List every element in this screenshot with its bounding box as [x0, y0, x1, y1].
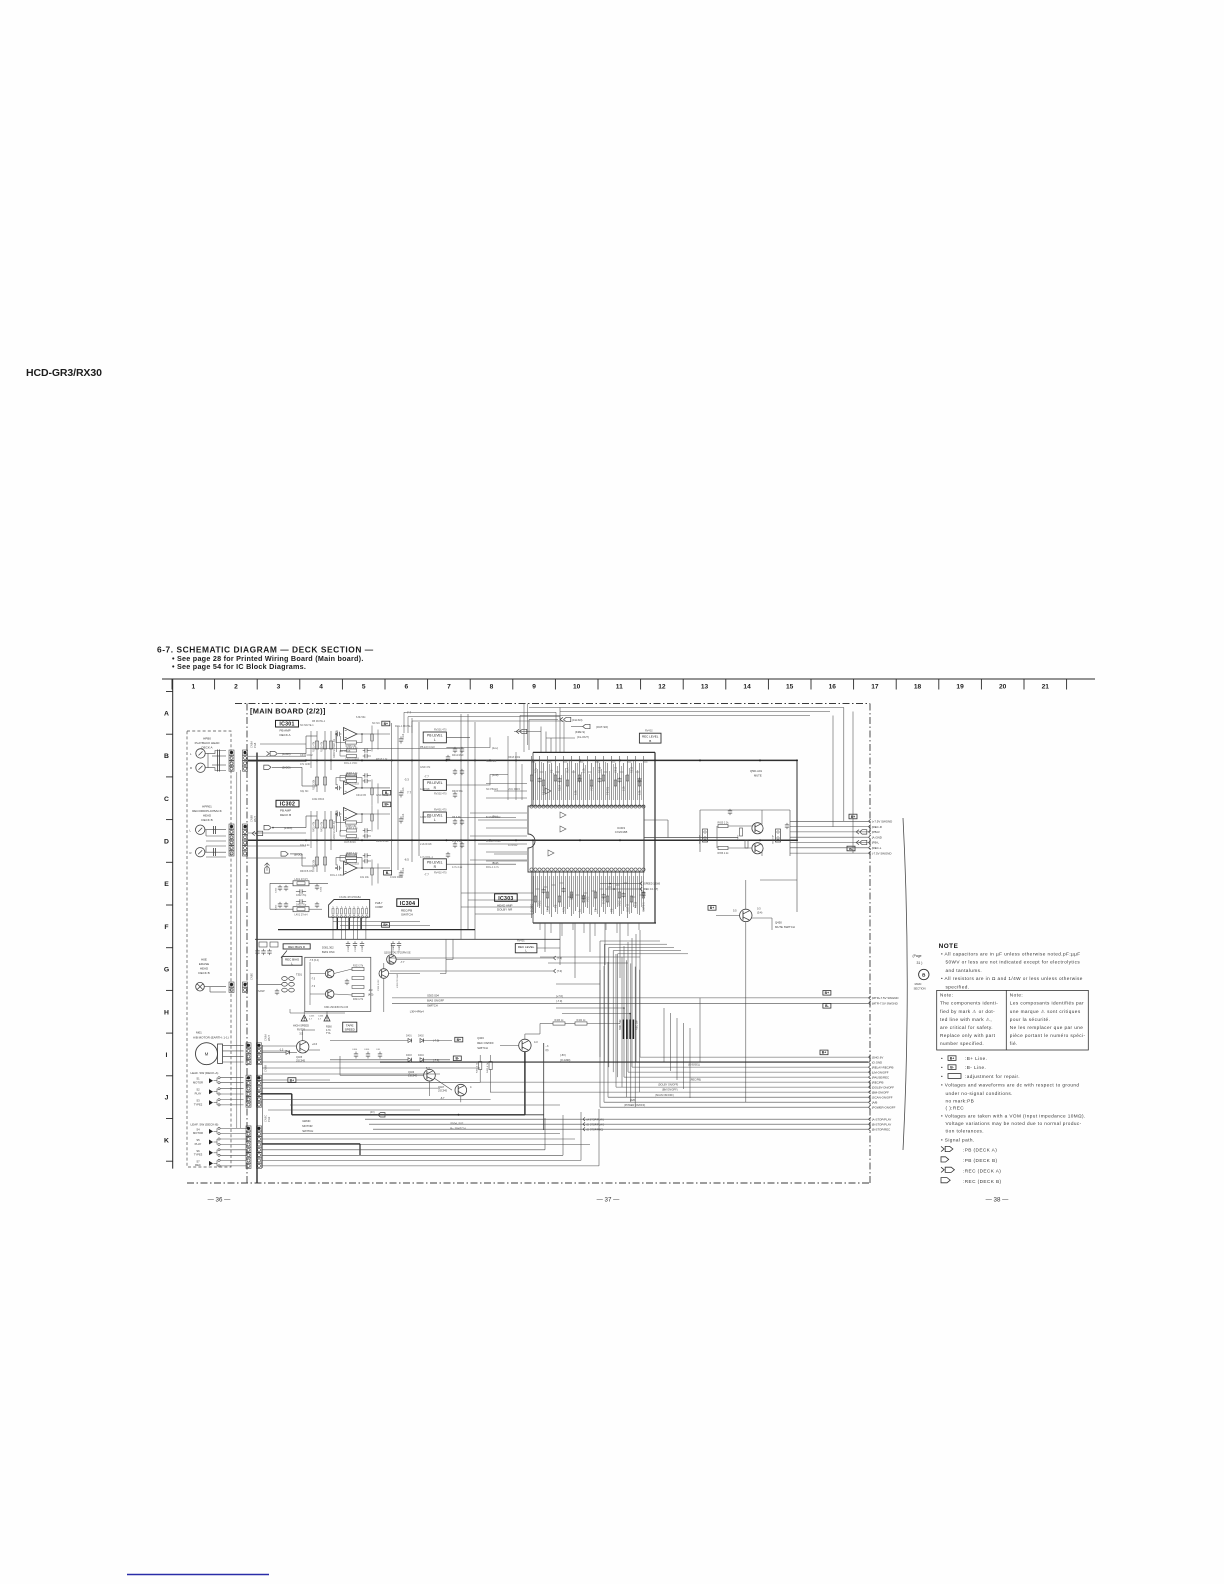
svg-text:2.2k R318: 2.2k R318: [420, 843, 432, 846]
IC303 lower collector bus: [533, 922, 656, 924]
B- marker: [383, 790, 391, 795]
bus drops to bias switch: [445, 939, 447, 973]
op-amp: [344, 862, 358, 875]
IC303 upper bus frame: [533, 751, 655, 753]
svg-text:— 37 —: — 37 —: [597, 1197, 621, 1204]
ladder wires upper right of IC301: [404, 711, 556, 713]
svg-text:C313: C313: [402, 733, 405, 739]
svg-text:0.022: 0.022: [570, 893, 574, 900]
svg-text:7: 7: [447, 684, 451, 691]
svg-text:FB 6.8k: FB 6.8k: [452, 816, 461, 819]
svg-text:PLAY: PLAY: [195, 1092, 202, 1096]
svg-text:and tantalums.: and tantalums.: [946, 968, 983, 973]
svg-text:C345: C345: [309, 1016, 315, 1018]
svg-text:RV402 470: RV402 470: [434, 872, 447, 875]
riser bundle verticals: [599, 941, 601, 1057]
svg-text:S3: S3: [196, 1099, 200, 1103]
svg-text:12: 12: [658, 684, 666, 691]
legend rec deck a: [941, 1167, 944, 1172]
svg-text:MUTE-1: MUTE-1: [642, 902, 646, 912]
svg-text:15: 15: [786, 684, 794, 691]
bias divider verticals: [371, 860, 373, 886]
pb level pot R deck A: [423, 780, 446, 791]
svg-text:4.7u DOL-1: 4.7u DOL-1: [420, 856, 434, 859]
svg-text:(OUT-SO): (OUT-SO): [596, 725, 608, 729]
svg-text:GND 47k: GND 47k: [420, 766, 431, 769]
k-row long wires: [262, 1149, 545, 1151]
svg-text:D402: D402: [418, 1035, 424, 1038]
svg-text:50WV or less are not indicated: 50WV or less are not indicated except fo…: [946, 960, 1081, 965]
bias divider verticals: [371, 779, 373, 805]
IC304 package: [329, 900, 370, 918]
svg-text:3: 3: [277, 684, 281, 691]
svg-text:C406: C406: [364, 1049, 370, 1051]
svg-text:PG8: PG8: [253, 742, 257, 748]
svg-text:(REC-L: (REC-L: [872, 846, 882, 850]
B+ markers on control lines: [823, 991, 831, 996]
bus junction dots: [305, 759, 307, 761]
svg-text:4.7u 2.2k: 4.7u 2.2k: [452, 866, 463, 869]
row letters A-K with ticks: [164, 692, 173, 1162]
legend rec deck b: [941, 1178, 950, 1183]
svg-text:are critical for safety.: are critical for safety.: [940, 1025, 993, 1030]
svg-text:6.8k 56k: 6.8k 56k: [356, 716, 366, 719]
svg-text:47k 2.2k: 47k 2.2k: [452, 840, 462, 843]
connector CN8A deck A head, board side pair: [229, 750, 234, 755]
svg-text:BIAS ON/OFF: BIAS ON/OFF: [427, 999, 444, 1003]
row D aux wires: [248, 832, 306, 834]
svg-text:RV401 470: RV401 470: [434, 809, 447, 812]
svg-text:C612: C612: [614, 766, 618, 773]
svg-text:R464 1k: R464 1k: [577, 1019, 587, 1022]
svg-text:C323: C323: [362, 946, 364, 952]
arrows above IC303: [560, 717, 563, 721]
svg-text:(LM-ON/OFF: (LM-ON/OFF: [872, 1070, 889, 1074]
svg-text:FB: FB: [554, 904, 558, 908]
svg-text:31 ): 31 ): [917, 961, 923, 965]
B- marker mute: [847, 846, 855, 851]
svg-text:(A.GND: (A.GND: [872, 835, 882, 839]
svg-text:C322: C322: [355, 946, 357, 952]
svg-text:6: 6: [404, 684, 408, 691]
rec/pb switch bus upper: [278, 929, 475, 931]
svg-text:(A STOP/PLAY): (A STOP/PLAY): [587, 1118, 605, 1121]
B+ marker IC302: [383, 802, 391, 807]
svg-text:FB: FB: [594, 908, 598, 912]
connector CN753: [776, 829, 781, 842]
svg-text:(O.GND: (O.GND: [872, 1060, 882, 1064]
svg-text:DOL-1 4.7u: DOL-1 4.7u: [486, 866, 500, 869]
svg-text:PB-EQ: PB-EQ: [606, 787, 610, 795]
svg-text:IC303: IC303: [498, 896, 513, 902]
supply verticals right: [843, 708, 845, 822]
svg-text::REC (DECK B): :REC (DECK B): [963, 1179, 1002, 1184]
svg-text:NC NC: NC NC: [372, 722, 380, 725]
svg-text:(B-STOP/PLAY: (B-STOP/PLAY: [872, 1122, 892, 1126]
svg-text::REC (DECK A): :REC (DECK A): [963, 1168, 1001, 1173]
svg-text:HPB0: HPB0: [203, 737, 211, 741]
svg-text::PB (DECK B): :PB (DECK B): [963, 1158, 997, 1163]
svg-text:R318 R322: R318 R322: [376, 840, 389, 843]
svg-text::PB (DECK A): :PB (DECK A): [963, 1148, 997, 1153]
svg-text:(-7.0): (-7.0): [556, 999, 562, 1003]
bias switch wiring: [390, 944, 392, 955]
svg-text:C307 0.0033: C307 0.0033: [345, 758, 359, 761]
connector leaf sw deck A pair: [246, 1075, 251, 1080]
bias osc transistor Q302: [325, 990, 334, 999]
svg-text:LEAF. SW (DECK-B): LEAF. SW (DECK-B): [191, 1123, 219, 1127]
legend pb deck a: [941, 1146, 944, 1151]
svg-text:CN9B: CN9B: [264, 1065, 268, 1072]
svg-text:VCC: VCC: [590, 785, 594, 791]
svg-text:B-: B-: [825, 1004, 829, 1008]
svg-text:16: 16: [829, 684, 837, 691]
motor wires: [223, 1044, 244, 1046]
border feed verticals: [523, 704, 525, 753]
svg-text:DOLBY NR: DOLBY NR: [497, 908, 513, 912]
pb-l output arrow: [856, 840, 859, 844]
svg-text:B.OSC C612: B.OSC C612: [486, 816, 501, 819]
diode pair D401 D402: [408, 1039, 412, 1043]
svg-text:HPR01: HPR01: [202, 805, 212, 809]
svg-text:S504, S02: S504, S02: [450, 1121, 464, 1125]
svg-text::adjustment for repair.: :adjustment for repair.: [965, 1074, 1020, 1079]
svg-text:OUT-B NC: OUT-B NC: [344, 841, 356, 844]
svg-text:(O-GND): (O-GND): [560, 1058, 571, 1062]
svg-text:(MTR-7.5V SWGND: (MTR-7.5V SWGND: [872, 1002, 898, 1006]
s501 s502 bold switch ticks: [623, 1020, 625, 1040]
svg-text:B+: B+: [710, 906, 714, 910]
B+ marker diodes: [455, 1037, 463, 1042]
svg-text:PB-EQ 0.022: PB-EQ 0.022: [420, 746, 435, 749]
svg-text:0.3: 0.3: [757, 907, 761, 911]
rec/play head L deck B: [196, 825, 205, 834]
svg-text:tion tolerances.: tion tolerances.: [946, 1128, 985, 1133]
svg-text:FB: FB: [610, 908, 614, 912]
svg-text:L301 27mH: L301 27mH: [295, 878, 308, 881]
svg-text:VCC: VCC: [538, 900, 542, 906]
svg-text:HEAD: HEAD: [200, 967, 209, 971]
svg-text:C405 56k: C405 56k: [420, 816, 431, 819]
head B wiring: [205, 829, 226, 831]
vertical drops into IC top: [507, 736, 509, 800]
svg-text:• Signal path.: • Signal path.: [941, 1137, 975, 1142]
transistor Q406: [424, 1069, 436, 1081]
connector CN752: [703, 829, 708, 842]
svg-text:D403: D403: [406, 1054, 412, 1057]
svg-text:5.5: 5.5: [733, 909, 737, 913]
svg-text:(Page: (Page: [913, 954, 922, 958]
feedback resistor: [346, 821, 357, 824]
svg-text:6.8k: 6.8k: [638, 789, 642, 795]
input coupling cap: [336, 867, 338, 869]
svg-text:SPEED: SPEED: [345, 1028, 356, 1032]
svg-text:R307 2.2k: R307 2.2k: [347, 827, 359, 830]
svg-text:B+: B+: [383, 923, 387, 927]
svg-text:(L-DO): (L-DO): [284, 826, 292, 830]
tape transport dashed enclosure: [187, 731, 231, 1167]
svg-text:(REC/PB: (REC/PB: [872, 1080, 884, 1084]
svg-text:B+: B+: [290, 1078, 294, 1082]
left bus risers from connectors: [262, 1082, 480, 1084]
svg-text:PLAYBACK HEAD: PLAYBACK HEAD: [195, 741, 221, 745]
svg-text:2SC945: 2SC945: [438, 1090, 448, 1093]
connector leaf sw deck B pair: [246, 1126, 251, 1131]
svg-text:S4: S4: [196, 1127, 200, 1131]
svg-text:(MTR+7.5V SWGND: (MTR+7.5V SWGND: [872, 996, 899, 1000]
svg-text:VCC: VCC: [618, 900, 622, 906]
svg-text:REC SW: REC SW: [636, 1020, 639, 1030]
IC303 bottom pin row: [530, 868, 645, 876]
bus drop to mute switch: [796, 840, 798, 912]
svg-text:L: L: [434, 738, 436, 742]
svg-text:B-: B-: [456, 1057, 460, 1061]
svg-text:BIAS OSC: BIAS OSC: [322, 950, 335, 954]
mute area frame wires: [644, 837, 738, 839]
filter caps: [355, 1052, 357, 1054]
svg-text:T301: T301: [296, 973, 302, 977]
input coupling cap: [336, 733, 338, 735]
svg-text:S6: S6: [196, 1149, 200, 1153]
svg-text:• Voltages are taken with a VO: • Voltages are taken with a VOM (Input i…: [941, 1113, 1086, 1118]
svg-text:(+7.5V SWGND: (+7.5V SWGND: [872, 820, 892, 824]
control bus left bends: [639, 930, 641, 1057]
svg-text:PB LEVEL: PB LEVEL: [427, 781, 443, 785]
svg-text:(BM-ON/OFF: (BM-ON/OFF: [872, 1090, 889, 1094]
svg-text:A/B MOTOR (EARTH: 1-1): A/B MOTOR (EARTH: 1-1): [193, 1036, 229, 1040]
svg-text:R463 1k: R463 1k: [555, 1019, 565, 1022]
svg-text:CN9C: CN9C: [264, 1115, 268, 1122]
svg-text:(KM2-S): (KM2-S): [575, 730, 585, 734]
svg-text:ERASE: ERASE: [199, 962, 209, 966]
svg-text:10k 2.2k: 10k 2.2k: [300, 844, 310, 847]
svg-text:(A-R): (A-R): [492, 773, 499, 777]
IC303 upper comb half-pitch lines: [533, 760, 535, 800]
svg-text:[MAIN BOARD (2/2)]: [MAIN BOARD (2/2)]: [250, 707, 326, 716]
svg-text:20: 20: [999, 684, 1007, 691]
long verticals to lower board: [460, 714, 462, 939]
svg-text:DECK A: DECK A: [280, 733, 291, 737]
svg-text:R318 100k: R318 100k: [508, 756, 521, 759]
bias osc resistors: [352, 967, 364, 970]
svg-text:(7.0): (7.0): [557, 956, 562, 960]
svg-text:(-5V): (-5V): [560, 1053, 566, 1057]
svg-text:CN9A: CN9A: [264, 1034, 268, 1041]
svg-text:-3.3: -3.3: [368, 988, 373, 992]
svg-text:+0.6: +0.6: [312, 1042, 318, 1046]
svg-text:CN8E: CN8E: [250, 973, 254, 980]
IC302 bank lower: [316, 850, 318, 872]
svg-text:VCC: VCC: [586, 896, 590, 902]
svg-text:(DOLBY-ON/OFF: (DOLBY-ON/OFF: [872, 1085, 895, 1089]
svg-text:I: I: [166, 1052, 168, 1059]
svg-text:(POWER-ON/OFF: (POWER-ON/OFF: [872, 1105, 896, 1109]
feedback resistor: [346, 856, 357, 859]
svg-text:Les composants identifiés par: Les composants identifiés par: [1010, 1001, 1084, 1006]
second riser bundle: [663, 1008, 665, 1062]
svg-text:NC MUTE-1: NC MUTE-1: [300, 724, 314, 727]
connector erase head pair: [229, 982, 234, 987]
IC label box IC301: [276, 720, 299, 727]
svg-text:10k 10k: 10k 10k: [360, 876, 370, 879]
rec bias L box: [282, 956, 302, 965]
svg-text:(B STOP/REC): (B STOP/REC): [587, 1128, 604, 1131]
q406/q407 wiring: [340, 1074, 424, 1076]
svg-text:RV303: RV303: [297, 1027, 305, 1031]
svg-text:SAMP: SAMP: [258, 990, 265, 993]
svg-text:13: 13: [701, 684, 709, 691]
svg-text:R462 4.7k: R462 4.7k: [477, 1062, 479, 1073]
svg-text:-7.5: -7.5: [311, 978, 316, 981]
coupling capacitor: [400, 816, 402, 819]
svg-text:(PB-L: (PB-L: [872, 841, 880, 845]
diode D405: [286, 1050, 290, 1054]
svg-text:DOL-1 VCC: DOL-1 VCC: [344, 762, 358, 765]
bold motor switch bus: [261, 1093, 292, 1095]
svg-text:D404: D404: [418, 1054, 424, 1057]
IC304 upper link wires: [333, 921, 420, 923]
svg-text:CX20188: CX20188: [615, 830, 628, 834]
rec bias R box: [283, 944, 310, 949]
IC303 left entry wires extended: [486, 783, 527, 785]
svg-text:2.2k: 2.2k: [582, 767, 586, 773]
svg-text:DECK B: DECK B: [280, 813, 291, 817]
svg-text:WHT: WHT: [253, 816, 257, 822]
svg-text:-7.9: -7.9: [311, 985, 316, 988]
E-F link horizontals: [461, 892, 533, 894]
inductor network L301: [293, 881, 309, 886]
svg-text:Q501 A01: Q501 A01: [750, 769, 762, 773]
svg-text::B+ Line.: :B+ Line.: [965, 1056, 987, 1061]
svg-text:• All resistors are in Ω and 1: • All resistors are in Ω and 1/4W or les…: [941, 976, 1083, 981]
playback head R deck A: [196, 763, 205, 772]
svg-text:SWITCH: SWITCH: [401, 913, 413, 917]
svg-text:MUTE SWITCH: MUTE SWITCH: [775, 925, 795, 929]
svg-text:PLAY: PLAY: [195, 1142, 202, 1146]
B+ marker: [382, 721, 390, 726]
svg-text:ted line with mark ⚠,: ted line with mark ⚠,: [940, 1017, 992, 1022]
svg-text:18: 18: [914, 684, 922, 691]
svg-text:• All capacitors are in µF unl: • All capacitors are in µF unless otherw…: [941, 951, 1081, 956]
junction dots: [361, 787, 363, 789]
svg-text:(POWER ON/OFF): (POWER ON/OFF): [624, 1104, 645, 1107]
bias oscillator enclosure: [305, 957, 371, 1011]
B+ marker IC304: [382, 923, 390, 928]
mute transistor Q751: [752, 823, 763, 834]
pb level pot L deck B: [423, 812, 446, 823]
legend pb deck b: [941, 1157, 949, 1162]
svg-text:C304: C304: [321, 886, 323, 892]
svg-text:R615 B.OSC: R615 B.OSC: [300, 870, 315, 873]
svg-text:(DOLBY ON/OFF): (DOLBY ON/OFF): [658, 1084, 678, 1087]
svg-text:pièce portant le numéro spéci-: pièce portant le numéro spéci-: [1010, 1033, 1086, 1038]
svg-text:GND R633: GND R633: [376, 794, 389, 797]
IC304 label box: [397, 899, 419, 907]
svg-text:(+7.0): (+7.0): [556, 994, 563, 998]
svg-text:B+: B+: [822, 1051, 826, 1055]
svg-text:2: 2: [234, 684, 238, 691]
svg-text:R307 2.2k: R307 2.2k: [347, 852, 359, 855]
svg-text:R: R: [190, 851, 192, 855]
connector motor pair: [246, 1043, 251, 1048]
bias transformer T301: [282, 977, 288, 981]
svg-text:The components identi-: The components identi-: [940, 1001, 998, 1006]
svg-text:K: K: [164, 1137, 169, 1144]
diode pair D403 D404: [408, 1058, 412, 1062]
svg-text:R323 27k: R323 27k: [353, 965, 364, 968]
inductor side caps: [279, 885, 281, 887]
svg-text:-7.7: -7.7: [424, 775, 429, 779]
svg-text:B-: B-: [849, 847, 853, 851]
svg-text:C313: C313: [402, 813, 405, 819]
svg-text:FB: FB: [550, 769, 554, 773]
svg-text:Note:: Note:: [1010, 993, 1023, 998]
svg-text:8: 8: [490, 684, 494, 691]
svg-text:Note:: Note:: [940, 993, 953, 998]
svg-text:(7.0): (7.0): [557, 969, 562, 973]
svg-text:C303: C303: [276, 887, 278, 893]
svg-text:RV401: RV401: [517, 940, 525, 943]
mute caps: [729, 809, 731, 811]
svg-text:R301 47k: R301 47k: [313, 741, 316, 752]
svg-text:R615 56k: R615 56k: [452, 790, 463, 793]
svg-text:(A/B: (A/B: [872, 1100, 878, 1104]
svg-text:S1: S1: [196, 1077, 200, 1081]
svg-text:NC C405: NC C405: [486, 760, 497, 763]
q450 area mute switch: [708, 906, 716, 911]
svg-text:-7.7: -7.7: [400, 960, 405, 964]
svg-text:C302 70p: C302 70p: [296, 894, 307, 897]
svg-text:(-7.5V SWGND: (-7.5V SWGND: [872, 851, 892, 855]
svg-text:H0E: H0E: [201, 958, 207, 962]
svg-text:X301 2SC945 KN-C33: X301 2SC945 KN-C33: [324, 1006, 349, 1009]
input coupling cap: [336, 813, 338, 815]
svg-text:B: B: [649, 739, 651, 743]
svg-text:REC ON/OFF: REC ON/OFF: [477, 1041, 494, 1045]
svg-text:DECK A: DECK A: [201, 746, 212, 750]
wire A-L to head amp: [446, 736, 470, 738]
svg-text:(PB-R: (PB-R: [872, 830, 880, 834]
extra mid horizontals: [290, 1104, 560, 1106]
svg-text:R412 REF: R412 REF: [452, 754, 464, 757]
svg-text:R318 2.2k: R318 2.2k: [376, 758, 388, 761]
svg-text:RV402: RV402: [645, 730, 653, 733]
rc network: [347, 829, 357, 832]
svg-text:-7.7: -7.7: [424, 873, 429, 877]
svg-text:-3.3: -3.3: [404, 778, 409, 782]
pb level pot R deck B: [423, 859, 446, 870]
op-amp: [344, 728, 358, 741]
coupling capacitor: [400, 736, 402, 739]
svg-text:R413 20k: R413 20k: [313, 859, 316, 870]
svg-text:100k R304: 100k R304: [312, 798, 325, 801]
svg-text:(SPEED 1 SW): (SPEED 1 SW): [643, 883, 660, 886]
mid stop/play arrows: [583, 1117, 585, 1121]
svg-text:no mark:PB: no mark:PB: [946, 1098, 975, 1103]
stop/play long wires: [365, 1118, 868, 1120]
warning wiring: [303, 1011, 305, 1015]
column ruler ticks and numbers: [172, 679, 1067, 691]
up arrow bias feed: [265, 863, 268, 871]
svg-text:1u R412: 1u R412: [508, 844, 518, 847]
IC303 lower wire field: [530, 876, 646, 918]
svg-text:0.022 R633: 0.022 R633: [390, 876, 404, 879]
inductor network L401: [293, 907, 309, 912]
svg-text:IC304: IC304: [400, 901, 415, 907]
svg-text:R318: R318: [598, 766, 602, 773]
svg-text:TYA: TYA: [326, 1032, 331, 1035]
svg-text:21: 21: [1042, 684, 1050, 691]
